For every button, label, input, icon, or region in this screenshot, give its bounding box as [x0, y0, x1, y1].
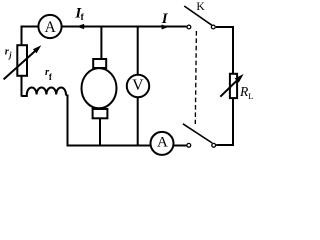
wire top-left horizontal to ammeter A1 — [22, 27, 39, 46]
svg-text:A: A — [45, 19, 57, 36]
ammeter A1 circle — [38, 15, 61, 38]
wire from coil down to bottom rail and right to ammeter A2 — [68, 95, 152, 146]
resistor r_j (variable, box) — [17, 45, 27, 76]
dashed mechanical link of switch K — [195, 31, 196, 124]
svg-text:I: I — [161, 11, 169, 27]
terminal node bottom-left of switch — [187, 143, 191, 147]
svg-text:f: f — [81, 13, 85, 23]
wire left rail lower — [21, 76, 23, 97]
generator top brush — [93, 59, 106, 68]
voltmeter V circle — [127, 75, 149, 97]
generator bottom brush — [93, 109, 108, 118]
generator top lead wire — [100, 27, 102, 60]
svg-text:A: A — [157, 135, 168, 151]
svg-text:V: V — [132, 77, 144, 94]
switch K bottom blade — [183, 124, 212, 143]
svg-text:f: f — [49, 72, 53, 82]
inductor r_f (field coil) — [22, 88, 68, 97]
wire top from A1 to switch terminal — [62, 26, 187, 28]
ammeter A2 circle — [151, 132, 174, 155]
right rail lower and wire bottom-right to switch — [216, 98, 233, 145]
generator armature circle — [82, 68, 117, 108]
svg-text:L: L — [248, 91, 253, 101]
wire from A2 to bottom switch terminal — [173, 145, 186, 147]
voltmeter branch lower wire — [137, 97, 139, 145]
arrow of rheostat r_j — [4, 50, 36, 79]
switch K top blade — [184, 6, 212, 25]
current arrow I (pointing right) — [162, 25, 169, 30]
terminal node top-right of switch — [211, 25, 215, 29]
svg-text:K: K — [196, 1, 205, 13]
voltmeter branch upper wire — [137, 27, 139, 75]
current arrow I_f (pointing left) — [76, 24, 84, 29]
arrow of load rheostat R_L — [220, 79, 239, 97]
terminal node top-left of switch — [187, 25, 191, 29]
terminal node bottom-right of switch — [212, 143, 216, 147]
load resistor R_L box — [230, 74, 237, 98]
wire top-right from switch to corner and right rail upper — [216, 27, 233, 74]
generator bottom lead wire — [99, 118, 101, 145]
